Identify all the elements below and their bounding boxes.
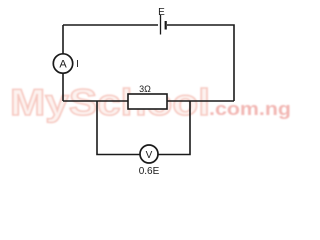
svg-text:.com.ng: .com.ng <box>209 99 291 119</box>
wire top-left horizontal to battery <box>63 24 158 26</box>
wire ammeter to middle wire <box>62 73 64 101</box>
svg-text:E: E <box>158 7 165 18</box>
svg-text:3Ω: 3Ω <box>139 84 151 94</box>
resistor R1 body <box>128 94 167 109</box>
battery cell E short plate <box>165 21 167 30</box>
ammeter A1 circle <box>53 54 72 73</box>
battery cell E long plate <box>160 15 162 35</box>
svg-text:MySchool: MySchool <box>10 82 210 123</box>
wire voltmeter branch left: junction down and along bottom <box>97 101 140 155</box>
svg-text:0.6E: 0.6E <box>139 166 160 177</box>
svg-text:V: V <box>146 150 153 161</box>
wire voltmeter branch right: bottom along and up to junction <box>158 101 190 155</box>
wire battery to top-right, down right side to middle wire <box>167 25 234 101</box>
wire left side: top corner down to ammeter <box>62 25 64 54</box>
watermark MySchool logo <box>10 82 291 123</box>
voltmeter V1 circle <box>140 145 158 163</box>
wire middle horizontal right segment from resistor <box>167 100 234 102</box>
svg-text:I: I <box>76 59 79 70</box>
svg-text:A: A <box>59 59 67 71</box>
wire middle horizontal left segment to resistor <box>63 100 128 102</box>
